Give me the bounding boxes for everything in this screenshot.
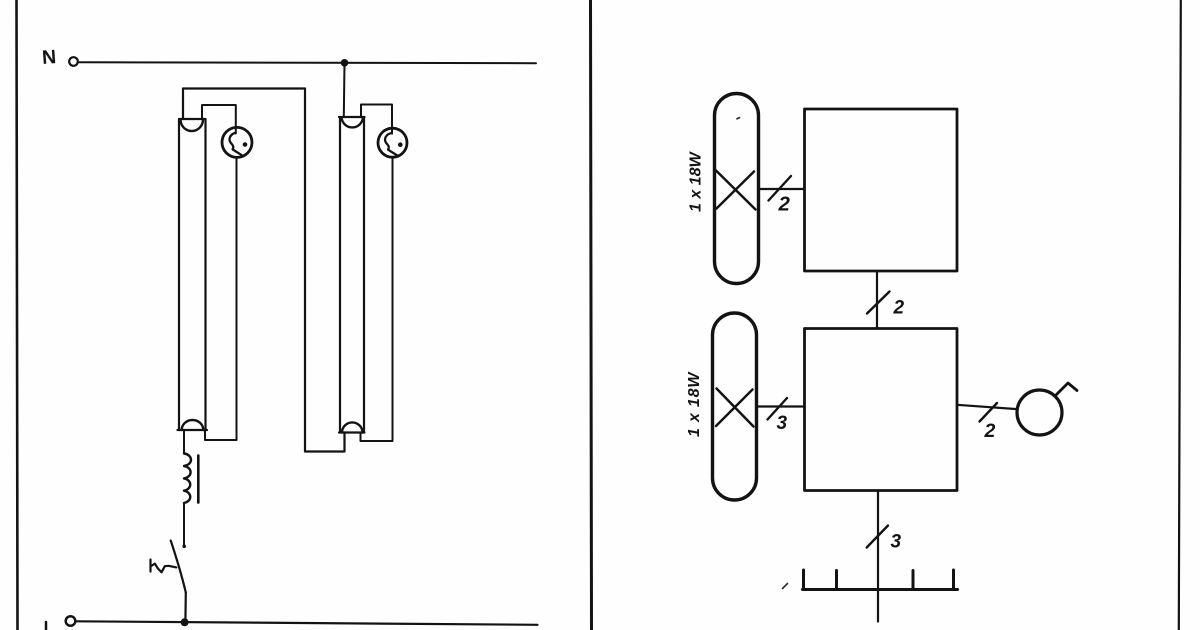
wire box 2 to distribution board (877, 491, 879, 622)
wire N line (79, 61, 537, 64)
switch actuator squiggle (151, 560, 177, 573)
tube 2 bottom electrode arc (342, 422, 363, 432)
ballast choke coil (184, 454, 191, 504)
fluorescent tube 2 body (339, 117, 365, 433)
switch blade (171, 541, 186, 593)
right page border (1179, 0, 1181, 630)
panel divider line (591, 0, 592, 630)
distribution board busbar (803, 570, 958, 590)
switch pivot dot (182, 545, 186, 549)
svg-text:1 x 18W: 1 x 18W (688, 151, 705, 212)
tube 1 top electrode arc (181, 120, 204, 132)
wire luminaire 2 to box 2 (757, 405, 805, 407)
junction box 1 (805, 109, 958, 271)
starter S2 electrode (385, 133, 397, 155)
wire box 1 to box 2 (876, 271, 878, 328)
left page border (17, 0, 18, 630)
wire ballast to switch (183, 503, 185, 546)
svg-text:2: 2 (778, 193, 791, 216)
lamp outlet circle (1017, 390, 1062, 435)
tiny speck in luminaire 1 (737, 118, 740, 119)
starter S1 circle (222, 127, 252, 157)
wire tube 1 bottom pin to ballast (183, 430, 185, 454)
svg-text:2: 2 (984, 420, 996, 442)
wire junction to lamp 2 cap (343, 63, 346, 117)
svg-text:N: N (41, 46, 57, 69)
slash 3-wire mark (867, 526, 888, 548)
terminal L (66, 616, 76, 626)
wire starter 1 to tube 1 bottom (205, 158, 237, 440)
luminaire 2 cross (716, 389, 754, 427)
ballast core bar (197, 456, 200, 503)
luminaire 1 outline (715, 94, 759, 284)
wire switch to L line (184, 593, 187, 623)
fluorescent tube 1 body (178, 119, 208, 430)
starter S2 contact dot (398, 142, 403, 147)
luminaire 1 cross (716, 171, 756, 210)
svg-text:2: 2 (893, 298, 905, 319)
starter S2 circle (378, 128, 407, 157)
slash 3-wire mark (768, 398, 788, 420)
starter S1 contact dot (243, 142, 248, 147)
wire starter 2 to tube 2 bottom (361, 157, 393, 441)
svg-text:3: 3 (891, 532, 902, 553)
luminaire 2 outline (713, 313, 757, 500)
wire tube 2 to starter 2 (361, 105, 392, 134)
stray pen mark near busbar (783, 584, 788, 589)
tube 2 top electrode arc (342, 118, 364, 128)
wire box 2 to lamp outlet (957, 405, 1018, 409)
slash 2-wire mark (769, 176, 792, 201)
wire tube 1 to starter 1 (202, 105, 236, 134)
starter S1 electrode (230, 133, 242, 155)
slash 2-wire mark (867, 292, 890, 314)
svg-text:3: 3 (777, 413, 788, 434)
lamp outlet hook (1056, 383, 1078, 396)
node L label (cut off) (45, 622, 48, 630)
slash 2-wire mark (980, 403, 998, 422)
tube 1 bottom electrode arc (182, 420, 204, 430)
svg-text:1 x 18W: 1 x 18W (686, 371, 703, 437)
junction on L line (181, 618, 189, 626)
junction box 2 (805, 329, 958, 491)
wire luminaire 1 to box 1 (759, 188, 805, 190)
wire L line (76, 621, 538, 625)
wire loop N to lamp 2 bottom pin (183, 89, 345, 452)
junction on N line (341, 59, 349, 67)
terminal N (69, 57, 78, 66)
